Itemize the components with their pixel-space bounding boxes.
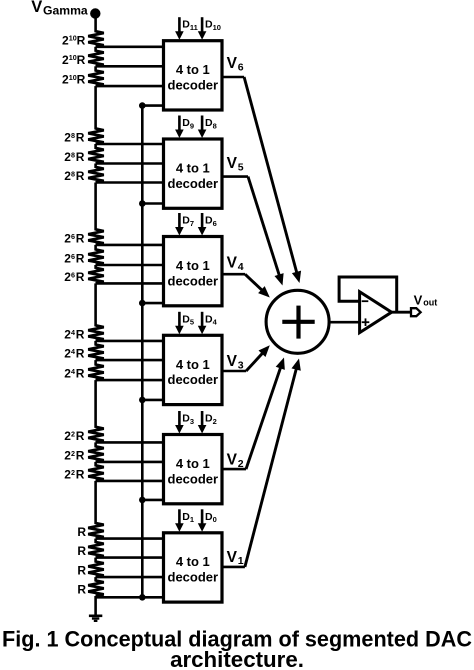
- svg-text:R: R: [76, 131, 85, 145]
- decoder U2 (4 to 1 decoder): [164, 139, 223, 208]
- svg-text:4 to 1: 4 to 1: [176, 258, 210, 273]
- svg-text:4: 4: [71, 367, 75, 376]
- resistor R19 (R): [88, 581, 104, 597]
- wire V4 arrow to summing node: [245, 274, 263, 291]
- summing node (adder): [266, 290, 329, 353]
- wire tap 7 from ladder to decoder U3 input 1: [96, 244, 165, 247]
- junction on common bus at decoder U6: [139, 594, 146, 601]
- junction on common bus at decoder U2: [139, 200, 146, 207]
- wire to decoder U2 input 4: [142, 202, 164, 205]
- node V5 output wire of U2: [222, 175, 248, 178]
- wire tap 9 from ladder to decoder U3 input 3: [96, 282, 165, 285]
- input bit D2 arrow into U5: [201, 411, 204, 427]
- svg-text:2: 2: [238, 458, 244, 470]
- decoder U3 (4 to 1 decoder): [164, 237, 223, 306]
- op-amp + input mark: [362, 318, 370, 326]
- svg-text:8: 8: [71, 169, 75, 178]
- wire ladder segment above R17: [94, 539, 97, 544]
- resistor R15 (2^2R): [88, 465, 104, 481]
- wire ladder segment above R3: [94, 66, 97, 71]
- wire feedback loop output to - input: [339, 277, 397, 312]
- resistor R17 (R): [88, 542, 104, 558]
- resistor R10 (2^4R): [88, 325, 104, 341]
- svg-text:4: 4: [71, 328, 75, 337]
- junction on common bus at decoder U4: [139, 397, 146, 404]
- wire to decoder U4 input 4: [142, 399, 164, 402]
- wire ladder bottom to ground: [94, 596, 97, 616]
- node VGamma terminal dot: [90, 8, 100, 18]
- wire tap 8 from ladder to decoder U3 input 2: [96, 264, 165, 267]
- svg-text:R: R: [77, 33, 86, 47]
- svg-text:decoder: decoder: [168, 372, 219, 387]
- svg-text:4 to 1: 4 to 1: [176, 62, 210, 77]
- svg-text:8: 8: [71, 131, 75, 140]
- wire tap 11 from ladder to decoder U4 input 2: [96, 359, 165, 362]
- svg-text:V: V: [227, 353, 238, 370]
- svg-text:8: 8: [213, 121, 217, 130]
- wire tap 4 from ladder to decoder U2 input 1: [96, 143, 165, 146]
- junction on common bus at decoder U1: [139, 102, 146, 109]
- svg-text:V: V: [227, 255, 238, 272]
- wire tap 16 from ladder to decoder U6 input 1: [96, 537, 165, 540]
- wire ladder segment above R2: [94, 47, 97, 52]
- wire tap 17 from ladder to decoder U6 input 2: [96, 556, 165, 559]
- wire tap 1 from ladder to decoder U1 input 1: [96, 45, 165, 48]
- svg-text:V: V: [414, 292, 423, 307]
- svg-text:R: R: [77, 73, 86, 87]
- svg-text:R: R: [76, 347, 85, 361]
- resistor R11 (2^4R): [88, 345, 104, 361]
- decoder U5 (4 to 1 decoder): [164, 435, 223, 504]
- svg-text:decoder: decoder: [168, 78, 219, 93]
- decoder U1 (4 to 1 decoder): [164, 41, 223, 110]
- svg-text:architecture.: architecture.: [170, 647, 304, 670]
- input bit D9 arrow into U2: [178, 116, 181, 132]
- resistor R3 (2^10R): [88, 71, 104, 87]
- svg-text:4: 4: [71, 347, 75, 356]
- op-amp - input mark: [362, 300, 369, 302]
- wire V1 arrow to summing node: [245, 367, 297, 567]
- svg-text:R: R: [77, 583, 86, 597]
- wire op-amp output: [392, 311, 411, 314]
- svg-text:10: 10: [69, 34, 77, 43]
- input bit D1 arrow into U6: [178, 509, 181, 525]
- decoder U6 (4 to 1 decoder): [164, 533, 223, 602]
- svg-text:R: R: [76, 169, 85, 183]
- svg-text:decoder: decoder: [168, 176, 219, 191]
- input bit D4 arrow into U4: [201, 312, 204, 328]
- svg-text:10: 10: [69, 53, 77, 62]
- input bit D0 arrow into U6: [201, 509, 204, 525]
- svg-text:3: 3: [190, 417, 194, 426]
- svg-text:7: 7: [190, 219, 194, 228]
- input bit D8 arrow into U2: [201, 116, 204, 132]
- svg-text:4 to 1: 4 to 1: [176, 456, 210, 471]
- svg-text:Gamma: Gamma: [43, 4, 88, 18]
- svg-text:10: 10: [213, 23, 221, 32]
- wire ladder segment above R1: [94, 14, 97, 33]
- svg-text:R: R: [77, 525, 86, 539]
- wire to decoder U5 input 4: [142, 499, 164, 502]
- svg-text:2: 2: [213, 417, 217, 426]
- wire tap 3 from ladder to decoder U1 input 3: [96, 85, 165, 88]
- resistor R9 (2^6R): [88, 268, 104, 284]
- wire ladder segment above R10: [94, 283, 97, 326]
- input bit D7 arrow into U3: [178, 213, 181, 229]
- svg-text:decoder: decoder: [168, 273, 219, 288]
- svg-text:out: out: [423, 297, 437, 307]
- wire to decoder U1 input 4: [142, 104, 164, 107]
- decoder U4 (4 to 1 decoder): [164, 335, 223, 404]
- svg-text:6: 6: [71, 232, 75, 241]
- svg-text:10: 10: [69, 73, 77, 82]
- svg-text:2: 2: [71, 449, 75, 458]
- svg-text:4 to 1: 4 to 1: [176, 357, 210, 372]
- wire ladder segment above R14: [94, 442, 97, 447]
- svg-text:R: R: [77, 544, 86, 558]
- svg-text:1: 1: [190, 515, 194, 524]
- svg-text:2: 2: [71, 429, 75, 438]
- svg-text:4 to 1: 4 to 1: [176, 554, 210, 569]
- resistor R7 (2^6R): [88, 229, 104, 245]
- svg-text:3: 3: [238, 359, 244, 371]
- svg-text:R: R: [76, 429, 85, 443]
- wire bottom tap from ladder to decoder U6 input 4: [96, 596, 165, 599]
- input bit D3 arrow into U5: [178, 411, 181, 427]
- wire tap 15 from ladder to decoder U5 input 3: [96, 480, 165, 483]
- op-amp U7 (unity buffer): [360, 292, 392, 333]
- wire tap 12 from ladder to decoder U4 input 3: [96, 379, 165, 382]
- node V3 output wire of U4: [222, 370, 246, 373]
- wire tap 6 from ladder to decoder U2 input 3: [96, 181, 165, 184]
- svg-text:1: 1: [238, 555, 244, 567]
- svg-text:R: R: [76, 150, 85, 164]
- svg-text:6: 6: [238, 61, 244, 73]
- wire V6 arrow to summing node: [244, 77, 297, 274]
- wire V2 arrow to summing node: [246, 366, 281, 469]
- wire ladder segment above R6: [94, 164, 97, 169]
- svg-text:V: V: [227, 549, 238, 566]
- svg-text:R: R: [76, 367, 85, 381]
- output terminal pin: [411, 308, 421, 316]
- svg-text:R: R: [76, 327, 85, 341]
- svg-text:V: V: [227, 452, 238, 469]
- wire tap 2 from ladder to decoder U1 input 2: [96, 65, 165, 68]
- wire ladder segment above R19: [94, 577, 97, 581]
- wire tap 5 from ladder to decoder U2 input 2: [96, 162, 165, 165]
- node V2 output wire of U5: [222, 468, 246, 471]
- wire ladder segment above R16: [94, 481, 97, 524]
- wire V5 arrow to summing node: [248, 177, 280, 277]
- wire ladder segment above R8: [94, 245, 97, 251]
- wire V3 arrow to summing node: [246, 352, 264, 371]
- wire ladder segment above R18: [94, 558, 97, 563]
- wire to decoder U3 input 4: [142, 302, 164, 305]
- wire ladder segment above R13: [94, 380, 97, 428]
- junction on common bus at decoder U3: [139, 300, 146, 307]
- resistor R8 (2^6R): [88, 250, 104, 266]
- svg-text:R: R: [76, 252, 85, 266]
- svg-text:4 to 1: 4 to 1: [176, 161, 210, 176]
- svg-text:4: 4: [238, 261, 244, 273]
- svg-text:V: V: [31, 0, 42, 16]
- svg-text:decoder: decoder: [168, 471, 219, 486]
- svg-text:decoder: decoder: [168, 570, 219, 585]
- resistor R1 (2^10R): [88, 31, 104, 47]
- node V4 output wire of U3: [222, 273, 245, 276]
- wire tap 13 from ladder to decoder U5 input 1: [96, 441, 165, 444]
- svg-text:6: 6: [71, 270, 75, 279]
- svg-text:9: 9: [190, 121, 194, 130]
- svg-text:6: 6: [213, 219, 217, 228]
- wire ladder segment above R5: [94, 144, 97, 149]
- svg-text:11: 11: [190, 23, 198, 32]
- wire tap 10 from ladder to decoder U4 input 1: [96, 340, 165, 343]
- svg-text:0: 0: [213, 515, 217, 524]
- svg-text:6: 6: [71, 252, 75, 261]
- ground symbol: [89, 616, 102, 621]
- wire common vertical bus: [141, 106, 144, 598]
- input bit D11 arrow into U1: [178, 17, 181, 33]
- resistor R2 (2^10R): [88, 51, 104, 67]
- svg-text:2: 2: [71, 468, 75, 477]
- svg-text:8: 8: [71, 150, 75, 159]
- svg-text:V: V: [227, 155, 238, 172]
- resistor R6 (2^8R): [88, 167, 104, 183]
- resistor R12 (2^4R): [88, 365, 104, 381]
- wire ladder segment above R11: [94, 341, 97, 346]
- svg-text:5: 5: [190, 318, 194, 327]
- resistor R5 (2^8R): [88, 148, 104, 164]
- resistor R14 (2^2R): [88, 446, 104, 462]
- resistor R16 (R): [88, 523, 104, 539]
- svg-text:R: R: [77, 564, 86, 578]
- junction on common bus at decoder U5: [139, 497, 146, 504]
- wire ladder segment above R7: [94, 183, 97, 231]
- wire ladder segment above R9: [94, 265, 97, 269]
- node V1 output wire of U6: [222, 566, 245, 569]
- svg-text:R: R: [76, 448, 85, 462]
- wire ladder segment above R15: [94, 462, 97, 467]
- svg-text:5: 5: [238, 161, 244, 173]
- svg-text:R: R: [76, 270, 85, 284]
- resistor R18 (R): [88, 562, 104, 578]
- svg-text:R: R: [76, 467, 85, 481]
- wire ladder segment above R12: [94, 360, 97, 366]
- node V6 output wire of U1: [222, 76, 244, 79]
- wire summing node to op-amp + input: [329, 321, 360, 324]
- input bit D5 arrow into U4: [178, 312, 181, 328]
- wire ladder segment above R4: [94, 86, 97, 129]
- svg-text:R: R: [77, 53, 86, 67]
- wire tap 14 from ladder to decoder U5 input 2: [96, 461, 165, 464]
- input bit D6 arrow into U3: [201, 213, 204, 229]
- svg-text:R: R: [76, 231, 85, 245]
- input bit D10 arrow into U1: [201, 17, 204, 33]
- svg-text:V: V: [227, 55, 238, 72]
- resistor R13 (2^2R): [88, 427, 104, 443]
- resistor R4 (2^8R): [88, 129, 104, 145]
- wire tap 18 from ladder to decoder U6 input 3: [96, 576, 165, 579]
